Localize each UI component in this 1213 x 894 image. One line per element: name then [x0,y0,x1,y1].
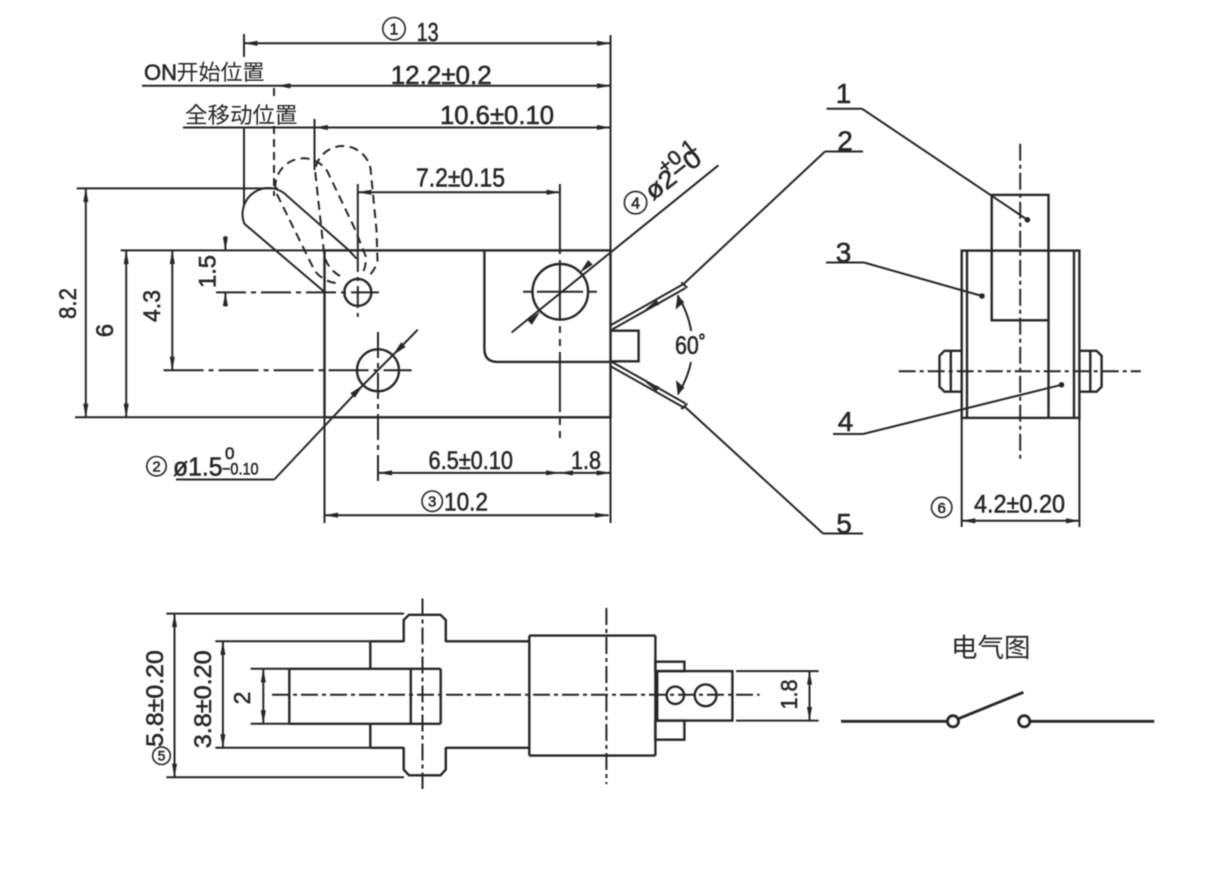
svg-text:60˚: 60˚ [675,332,706,360]
svg-text:4: 4 [838,406,854,437]
svg-text:ø1.5: ø1.5 [173,452,223,482]
svg-text:13: 13 [417,17,439,47]
svg-text:4: 4 [631,195,640,212]
svg-text:10.2: 10.2 [444,489,488,517]
svg-text:1: 1 [390,22,399,39]
svg-text:1.5: 1.5 [195,255,222,288]
svg-text:12.2±0.2: 12.2±0.2 [391,60,492,90]
svg-text:4.2±0.20: 4.2±0.20 [974,491,1065,519]
svg-text:ON: ON [144,60,177,85]
svg-text:2: 2 [229,692,255,705]
svg-text:1: 1 [836,78,852,109]
svg-text:5.8±0.20: 5.8±0.20 [142,650,169,747]
svg-text:4.3: 4.3 [139,290,166,322]
svg-text:6: 6 [92,324,119,337]
svg-text:3.8±0.20: 3.8±0.20 [190,650,217,748]
svg-text:6.5±0.10: 6.5±0.10 [429,447,514,475]
svg-text:5: 5 [158,748,166,764]
svg-text:6: 6 [938,500,946,517]
svg-text:−0.10: −0.10 [222,460,259,479]
svg-text:7.2±0.15: 7.2±0.15 [416,163,505,193]
svg-text:1.8: 1.8 [776,680,802,710]
svg-text:8.2: 8.2 [55,288,82,319]
svg-text:10.6±0.10: 10.6±0.10 [440,100,554,130]
svg-text:1.8: 1.8 [571,447,601,475]
svg-text:3: 3 [428,494,436,511]
svg-text:2: 2 [152,459,160,476]
